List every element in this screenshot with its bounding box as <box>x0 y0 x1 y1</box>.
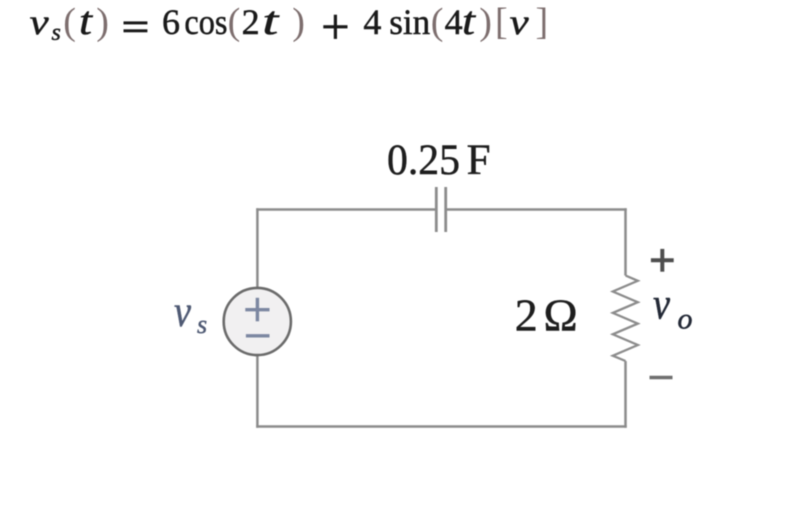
svg-text:t: t <box>262 0 279 43</box>
svg-text:F: F <box>467 137 491 184</box>
label vo (output voltage) <box>653 280 693 336</box>
svg-text:]: ] <box>536 1 549 43</box>
svg-text:t: t <box>79 0 93 43</box>
svg-text:[: [ <box>495 1 508 43</box>
svg-text:s: s <box>197 310 207 339</box>
svg-text:t: t <box>462 0 476 43</box>
wire right-top segment <box>624 208 627 275</box>
wire top-right segment <box>446 208 627 211</box>
resistor R=2ohm zigzag <box>613 276 638 362</box>
svg-text:0.25: 0.25 <box>387 137 460 184</box>
wire left <box>256 208 259 427</box>
svg-text:sin: sin <box>389 2 430 42</box>
svg-text:): ) <box>292 1 305 43</box>
svg-text:cos: cos <box>184 2 227 42</box>
svg-text:v: v <box>653 280 670 329</box>
voltage source VS circle <box>224 288 291 355</box>
svg-text:s: s <box>52 20 61 46</box>
wire bottom <box>256 425 627 428</box>
svg-text:v: v <box>30 2 49 42</box>
svg-text:4: 4 <box>363 2 381 42</box>
svg-text:(: ( <box>431 1 444 43</box>
svg-text:): ) <box>479 1 492 43</box>
svg-text:2: 2 <box>242 2 260 42</box>
wire top-left segment <box>256 208 436 211</box>
svg-text:(: ( <box>63 1 76 43</box>
voltage source minus sign <box>246 334 270 337</box>
output minus sign <box>650 376 673 380</box>
svg-text:2: 2 <box>515 290 538 341</box>
svg-text:6: 6 <box>162 2 180 42</box>
svg-text:): ) <box>96 1 109 43</box>
svg-text:v: v <box>174 287 191 336</box>
equation: vs(t) = 6 cos(2t) + 4 sin(4t)[v] <box>30 0 549 46</box>
wire right-bottom segment <box>624 361 627 428</box>
svg-text:Ω: Ω <box>544 290 578 341</box>
svg-text:4: 4 <box>445 2 463 42</box>
capacitor C=0.25F plates <box>436 187 445 232</box>
svg-text:o: o <box>678 303 693 336</box>
svg-text:(: ( <box>228 1 241 43</box>
output plus sign <box>651 249 674 272</box>
label vs (source voltage) <box>174 287 207 339</box>
svg-text:v: v <box>510 2 529 42</box>
voltage source plus sign <box>245 298 269 322</box>
